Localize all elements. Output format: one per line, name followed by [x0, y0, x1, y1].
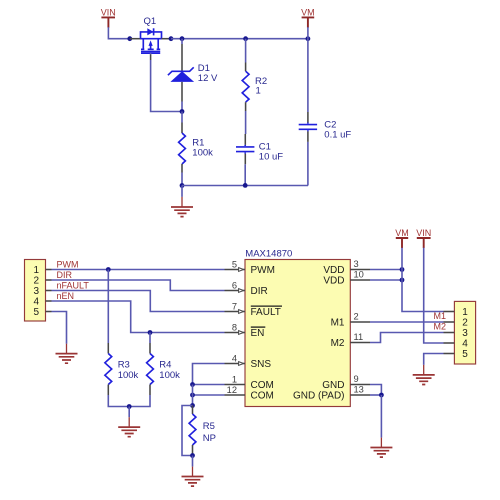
CON1 pin 2 — [46, 279, 52, 281]
resistor R4 — [147, 343, 154, 395]
wire R3/R4 bottoms to ground rail — [108, 395, 150, 407]
svg-text:M1: M1 — [433, 311, 446, 321]
wire SNS net — [193, 364, 225, 385]
wire VM stub down — [307, 27, 309, 39]
U1 pin 7 FAULT — [225, 301, 283, 318]
U1 pin 10 VDD — [323, 269, 370, 286]
wire gate node to R1 — [181, 112, 183, 123]
ground (CON2 pin5) — [413, 365, 435, 385]
power symbol VIN (lower) — [416, 228, 431, 248]
wire VDD pin3 to VM — [370, 269, 402, 271]
junction C1 bottom — [243, 183, 248, 188]
svg-text:3: 3 — [33, 286, 39, 297]
svg-text:VDD: VDD — [323, 265, 344, 276]
svg-text:NP: NP — [203, 433, 216, 444]
junction SNS/COM — [190, 382, 195, 387]
svg-text:6: 6 — [232, 280, 237, 290]
svg-text:M2: M2 — [433, 321, 446, 331]
wire VM down to C2 — [307, 39, 309, 112]
capacitor C2 — [299, 112, 317, 142]
wire Q1 source pin — [130, 38, 141, 40]
wire D1 anode pin — [181, 82, 183, 102]
U1 pin 2 M1 — [331, 311, 370, 328]
resistor R3 — [105, 343, 112, 395]
wire COM node down — [192, 385, 194, 406]
label R5 value — [203, 421, 216, 444]
ground (U1 GND) — [370, 438, 392, 458]
junction COM/COM — [190, 393, 195, 398]
svg-text:2: 2 — [33, 275, 39, 286]
wire DIR net — [52, 280, 225, 291]
label D1 value — [198, 63, 218, 84]
ground (R5) — [182, 456, 204, 487]
label C2 value — [324, 119, 351, 140]
junction gate node — [180, 109, 185, 114]
wire R1 bottom to ground rail — [181, 173, 183, 186]
svg-text:nEN: nEN — [57, 291, 75, 301]
svg-text:PWM: PWM — [57, 259, 79, 269]
ground (top circuit) — [171, 186, 193, 217]
wire M1 net — [370, 321, 444, 323]
svg-text:Q1: Q1 — [144, 16, 157, 27]
wire PWM net — [52, 269, 225, 271]
svg-text:VIN: VIN — [416, 228, 431, 238]
wire nEN net — [52, 301, 225, 333]
wire C2 bottom to rail — [307, 142, 309, 186]
U1 pin 13 GND PAD — [293, 384, 370, 401]
U1 pin 9 GND — [322, 374, 370, 391]
wire bottom rail of top circuit — [182, 185, 308, 187]
capacitor C1 — [236, 134, 254, 164]
svg-text:VM: VM — [395, 228, 409, 238]
wire R3 top — [107, 270, 109, 344]
svg-text:4: 4 — [33, 296, 39, 307]
svg-text:100k: 100k — [159, 370, 180, 381]
svg-text:VIN: VIN — [101, 8, 116, 18]
resistor R1 — [179, 123, 186, 173]
CON2 pin 5 — [444, 353, 455, 355]
svg-text:FAULT: FAULT — [251, 307, 281, 318]
svg-text:10: 10 — [354, 269, 364, 279]
svg-text:12 V: 12 V — [198, 73, 218, 84]
wire R4 top — [149, 333, 151, 344]
CON2 pin 2 — [444, 321, 455, 323]
junction ground rail — [127, 404, 132, 409]
label R4 value — [159, 360, 180, 381]
transistor Q1 — [141, 28, 162, 53]
svg-text:0.1 uF: 0.1 uF — [324, 130, 351, 141]
wire COM pin12 net — [193, 394, 225, 396]
wire R5 bypass — [182, 406, 193, 456]
svg-text:DIR: DIR — [251, 286, 268, 297]
CON1 pin 4 — [46, 300, 52, 302]
svg-text:5: 5 — [33, 307, 39, 318]
label C1 value — [259, 142, 283, 163]
svg-text:9: 9 — [354, 374, 359, 384]
svg-text:100k: 100k — [118, 370, 139, 381]
wire GND node down — [380, 395, 382, 438]
svg-text:2: 2 — [354, 311, 359, 321]
IC U1 MAX14870 — [245, 249, 350, 407]
svg-text:7: 7 — [232, 301, 237, 311]
wire CON2 pin5 to ground — [424, 354, 444, 365]
wire D1 cathode pin — [181, 39, 183, 44]
svg-text:100k: 100k — [192, 148, 213, 159]
svg-text:VM: VM — [301, 8, 315, 18]
svg-text:GND: GND — [322, 380, 344, 391]
CON1 pin 5 — [46, 311, 52, 313]
connector CON1 (left header) — [25, 260, 46, 322]
junction at Q1 source — [127, 36, 132, 41]
junction D1 branch — [180, 36, 185, 41]
wire R2 branch — [245, 39, 247, 63]
CON2 pin 3 — [444, 332, 455, 334]
junction R2 branch — [243, 36, 248, 41]
wire C1 bottom — [244, 164, 246, 185]
svg-text:SNS: SNS — [251, 359, 272, 370]
label R3 value — [118, 360, 139, 381]
wire VIN to Q1 source — [108, 27, 129, 39]
junction R5 bottom — [190, 453, 195, 458]
svg-text:M2: M2 — [331, 338, 345, 349]
U1 pin 12 COM — [225, 385, 274, 402]
svg-text:1: 1 — [33, 265, 39, 276]
svg-text:13: 13 — [354, 384, 364, 394]
junction R5 top — [190, 403, 195, 408]
svg-text:PWM: PWM — [251, 265, 275, 276]
label R1 value — [192, 137, 213, 158]
svg-text:8: 8 — [232, 322, 237, 332]
U1 pin 5 PWM — [225, 259, 275, 276]
resistor R5 — [189, 406, 196, 456]
junction R1 bottom — [180, 183, 185, 188]
svg-text:3: 3 — [462, 328, 468, 339]
svg-text:DIR: DIR — [57, 270, 73, 280]
wire Q1 gate pin — [150, 54, 152, 60]
svg-text:5: 5 — [232, 259, 237, 269]
junction VM corner — [306, 36, 311, 41]
U1 pin 3 VDD — [323, 259, 370, 276]
wire VM rail to CON2 pin1 — [402, 248, 444, 312]
svg-text:EN: EN — [251, 328, 265, 339]
svg-text:R5: R5 — [203, 421, 215, 432]
label R2 value — [255, 76, 267, 97]
wire Q1 gate to D1 anode node — [151, 53, 182, 112]
CON1 pin 3 — [46, 290, 52, 292]
svg-text:2: 2 — [462, 317, 468, 328]
svg-text:MAX14870: MAX14870 — [245, 249, 292, 260]
wire D1 anode to gate node — [181, 102, 183, 112]
CON2 pin 1 — [444, 311, 455, 313]
power symbol VIN (top) — [101, 8, 116, 28]
wire GND pin13 — [370, 394, 381, 396]
svg-text:GND (PAD): GND (PAD) — [293, 391, 344, 402]
U1 pin 11 M2 — [331, 332, 370, 349]
svg-text:COM: COM — [251, 380, 274, 391]
connector CON2 (right header) — [454, 301, 475, 364]
svg-text:1: 1 — [256, 86, 261, 97]
svg-text:12: 12 — [227, 385, 237, 395]
wire top rail to VM corner — [171, 38, 308, 40]
svg-text:4: 4 — [462, 338, 468, 349]
svg-text:M1: M1 — [331, 318, 345, 329]
power symbol VM (top) — [301, 8, 315, 28]
svg-text:4: 4 — [232, 353, 237, 363]
svg-text:10 uF: 10 uF — [259, 152, 283, 163]
ground (R3 R4) — [118, 407, 140, 437]
junction Q1 drain — [169, 36, 174, 41]
junction VDD10/VM — [400, 278, 405, 283]
junction GND pins — [379, 393, 384, 398]
junction VDD3/VM — [400, 267, 405, 272]
wire R2 to C1 — [245, 111, 247, 134]
svg-text:3: 3 — [354, 259, 359, 269]
junction PWM/R3 — [106, 267, 111, 272]
U1 pin 4 SNS — [225, 353, 272, 370]
CON1 pin 1 — [46, 269, 52, 271]
U1 pin 1 COM — [225, 374, 274, 391]
diode D1 zener — [168, 67, 194, 82]
svg-text:VDD: VDD — [323, 276, 344, 287]
power symbol VM (lower) — [395, 228, 409, 248]
U1 pin 6 DIR — [225, 280, 268, 297]
resistor R2 — [242, 63, 249, 112]
svg-text:COM: COM — [251, 391, 274, 402]
wire M2 net — [370, 333, 444, 343]
svg-text:nFAULT: nFAULT — [57, 281, 90, 291]
wire Q1 drain pin — [162, 38, 172, 40]
svg-text:11: 11 — [354, 332, 364, 342]
wire VDD pin10 to VM — [370, 279, 402, 281]
wire nFAULT net — [52, 291, 225, 312]
CON2 pin 4 — [444, 342, 455, 344]
svg-text:5: 5 — [462, 349, 468, 360]
U1 pin 8 EN — [225, 322, 266, 339]
svg-text:1: 1 — [232, 374, 237, 384]
wire COM pin1 net — [193, 384, 225, 386]
ground (CON1 pin5) — [56, 344, 78, 364]
svg-text:1: 1 — [462, 307, 468, 318]
wire VIN rail to CON2 pin4 — [424, 248, 444, 343]
wire GND pin9 — [370, 385, 381, 396]
junction nEN/R4 — [148, 330, 153, 335]
wire CON1 pin5 to ground — [52, 312, 67, 344]
